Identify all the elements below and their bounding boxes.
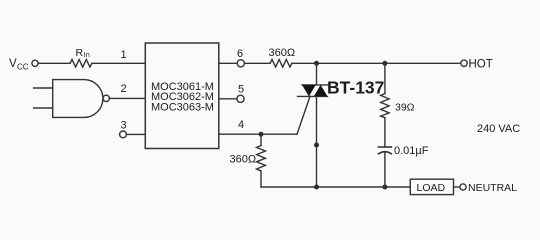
label Vcc [9,58,29,72]
snubber top lead [384,63,386,93]
svg-text:240 VAC: 240 VAC [477,123,520,135]
svg-text:2: 2 [121,83,127,95]
svg-text:4: 4 [238,119,244,131]
svg-text:LOAD: LOAD [417,182,446,194]
svg-text:3: 3 [121,120,127,132]
svg-text:HOT: HOT [469,59,493,71]
wire pin 4 [219,133,297,135]
pin 6 label [237,48,243,60]
label 360 ohm top [269,47,296,59]
triac Q1 MT2 lead [316,63,318,85]
terminal pin 3 [120,131,127,138]
LOAD box [410,179,453,194]
svg-text:V: V [9,58,17,70]
label 360 ohm bottom [230,154,257,166]
wire Vcc to Rin [38,62,70,64]
wire IC to pin 6 terminal [219,62,237,64]
junction bottom rail / snubber [382,185,387,190]
label Rin [76,47,90,59]
capacitor 0.01uF [378,147,391,154]
NAND output bubble [103,95,109,101]
terminal NEUTRAL [460,184,466,190]
junction top rail / snubber [382,61,387,66]
wire Rin to pin 1 [92,62,145,64]
wire NAND input A [34,87,53,89]
NAND gate U2 [53,80,103,118]
wire pin 3 to IC [127,133,146,135]
svg-text:NEUTRAL: NEUTRAL [468,182,517,194]
pin 1 label [121,49,127,61]
wire pin 6 to 360 ohm resistor [244,62,270,64]
wire LOAD to NEUTRAL [454,186,460,188]
pin 2 label [121,83,127,95]
pin 5 label [238,83,244,95]
label 39 ohm [395,102,415,114]
optocoupler U1 MOC306x-M box [145,43,219,149]
junction top rail / triac [314,61,319,66]
wire NAND input B [34,107,53,109]
triac Q1 body [298,85,328,97]
svg-text:360Ω: 360Ω [269,47,296,59]
terminal pin 5 [237,95,244,102]
triac gate wire [297,96,310,134]
capacitor bottom lead [384,153,386,187]
label MOC3062-M [151,91,214,103]
label 0.01uF [394,145,429,157]
label MOC3061-M [151,81,214,93]
svg-text:In: In [84,50,90,59]
triac Q1 MT1 lead [316,96,318,187]
label HOT [469,59,493,71]
svg-text:0.01µF: 0.01µF [394,145,429,157]
svg-text:6: 6 [237,48,243,60]
resistor Rin [70,60,92,68]
label NEUTRAL [468,182,517,194]
svg-text:CC: CC [17,63,29,72]
pin 4 label [238,119,244,131]
wire top rail to HOT [292,62,461,64]
terminal HOT [461,60,467,66]
svg-text:39Ω: 39Ω [395,102,415,114]
label BT-137 [327,78,384,98]
terminal pin 6 [237,60,244,67]
wire 39 ohm to capacitor [384,118,386,147]
svg-text:R: R [76,47,84,59]
svg-text:360Ω: 360Ω [230,154,257,166]
svg-text:1: 1 [121,49,127,61]
resistor 39 ohm [381,94,389,118]
svg-text:5: 5 [238,83,244,95]
resistor 360 ohm bottom [257,134,266,187]
label MOC3063-M [151,101,214,113]
bottom rail wire [261,186,410,188]
svg-text:BT-137: BT-137 [327,78,384,98]
svg-text:MOC3063-M: MOC3063-M [151,101,214,113]
wire IC to pin 5 terminal [219,98,237,100]
resistor 360 ohm top [270,60,292,68]
label LOAD [417,182,446,194]
label 240 VAC [477,123,520,135]
pin 3 label [121,120,127,132]
wire NAND to pin 2 [110,97,146,99]
terminal Vcc [32,60,38,66]
junction on triac lead [314,143,319,148]
junction bottom rail / triac [314,185,319,190]
junction pin4 / 360 ohm branch [259,132,264,137]
